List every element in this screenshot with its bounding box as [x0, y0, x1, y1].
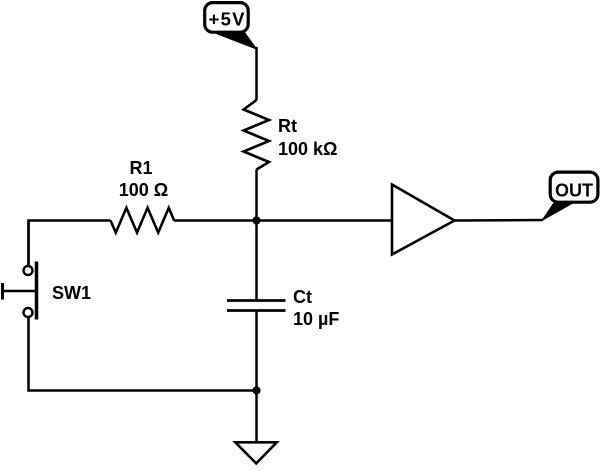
- wire bottom junction to ground: [255, 391, 258, 444]
- SW1 plunger end cap: [1, 283, 4, 300]
- wire SW1 bottom terminal to bottom rail: [29, 317, 257, 391]
- svg-text:+5V: +5V: [209, 9, 246, 30]
- svg-text:100 Ω: 100 Ω: [119, 180, 168, 200]
- svg-text:SW1: SW1: [52, 283, 91, 303]
- wire buffer output to OUT flag: [455, 219, 544, 222]
- resistor R1: [111, 208, 175, 233]
- svg-text:R1: R1: [129, 158, 152, 178]
- svg-text:OUT: OUT: [555, 181, 593, 201]
- label R1 value 100 Ω: [119, 158, 168, 200]
- SW1 plunger shaft: [3, 290, 36, 293]
- capacitor Ct: [227, 301, 286, 311]
- buffer amplifier U1: [392, 185, 455, 255]
- svg-text:Ct: Ct: [293, 287, 312, 307]
- svg-text:100 kΩ: 100 kΩ: [278, 139, 337, 159]
- SW1 top terminal circle: [24, 266, 33, 275]
- switch SW1 (pushbutton): [3, 221, 37, 320]
- wire Rt to node: [255, 170, 258, 221]
- ground: [235, 442, 276, 463]
- resistor Rt: [244, 100, 269, 170]
- svg-text:10 µF: 10 µF: [293, 309, 339, 329]
- label Ct value 10 µF: [293, 287, 339, 329]
- power flag +5V: [205, 3, 257, 49]
- SW1 bottom terminal circle: [24, 308, 33, 317]
- wire left rail to SW1 top terminal: [27, 221, 30, 267]
- bottom junction dot: [252, 386, 260, 394]
- node junction dot (R1/Rt/Ct/buffer): [252, 216, 260, 224]
- wire node to buffer input: [257, 219, 393, 222]
- wire Ct bottom plate to bottom junction: [255, 311, 258, 391]
- SW1 actuator bar: [35, 262, 39, 320]
- output flag OUT: [542, 172, 598, 220]
- svg-text:Rt: Rt: [278, 116, 297, 136]
- wire +5V to Rt: [255, 47, 258, 100]
- wire left rail top corner to R1: [29, 221, 111, 267]
- wire R1 to node: [174, 219, 256, 222]
- label Rt value 100 kΩ: [278, 116, 337, 159]
- wire node to Ct top plate: [255, 221, 258, 301]
